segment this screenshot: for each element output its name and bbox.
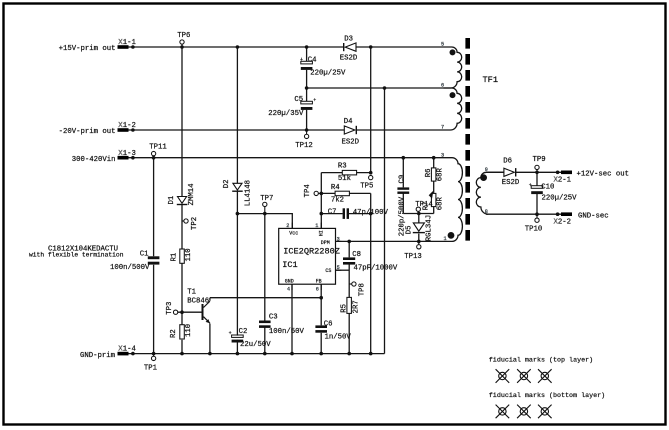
test point TP11 (149, 144, 167, 158)
svg-text:C2: C2 (239, 328, 248, 336)
svg-text:X2-2: X2-2 (554, 219, 572, 227)
wire C8/R5 vertical (348, 241, 350, 353)
svg-text:+: + (313, 98, 316, 104)
capacitor C9 (397, 175, 409, 237)
svg-text:TP7: TP7 (260, 195, 273, 203)
wire C7 row (321, 213, 370, 215)
svg-text:68R: 68R (436, 197, 444, 211)
svg-text:fiducial marks (top layer): fiducial marks (top layer) (489, 356, 593, 364)
wire GND rail (129, 353, 385, 355)
transformer TF1 winding 5-6 (444, 47, 462, 88)
transformer phase dot winding6 (450, 92, 456, 98)
wire C4/C5 vertical (306, 47, 308, 130)
svg-text:7k2: 7k2 (331, 197, 344, 205)
wire Vcc feed row (237, 214, 292, 229)
test point TP5 (360, 175, 373, 190)
wire aux-raw to TP5 vertical (370, 47, 372, 173)
svg-text:D4: D4 (344, 118, 353, 126)
diode D5 RGL34J (405, 215, 433, 241)
svg-text:3: 3 (337, 237, 340, 243)
svg-text:X1-4: X1-4 (118, 346, 136, 354)
transformer phase dot winding1 (448, 232, 455, 239)
diode D4 (342, 118, 360, 147)
test point TP2 (182, 217, 199, 230)
svg-text:+: + (229, 330, 232, 336)
wire D1/R1/R2 vertical (181, 47, 183, 354)
junction dot C7 left (320, 212, 324, 216)
transformer TF1 winding 6-7 (444, 88, 462, 130)
svg-text:TP6: TP6 (177, 32, 190, 40)
svg-text:IC1: IC1 (282, 260, 297, 270)
svg-text:C1: C1 (140, 251, 149, 259)
svg-text:68R: 68R (436, 167, 444, 181)
svg-text:TP8: TP8 (358, 283, 366, 296)
svg-text:C6: C6 (324, 320, 333, 328)
resistor R6 (425, 167, 445, 181)
diode D6 (502, 158, 520, 188)
svg-text:C7: C7 (328, 209, 337, 217)
wire emitter vertical (209, 324, 211, 354)
svg-text:5: 5 (337, 265, 340, 271)
svg-text:6: 6 (316, 286, 319, 292)
wire D5 vertical (418, 214, 420, 242)
test point TP13 (404, 241, 422, 260)
wire -20V row (129, 129, 444, 131)
svg-text:GND: GND (285, 279, 294, 285)
svg-text:8: 8 (485, 209, 488, 215)
wire D2/C2 vertical (236, 47, 238, 354)
svg-text:TF1: TF1 (483, 75, 498, 85)
test point TP9 (533, 156, 546, 172)
test point TP7 (260, 195, 273, 214)
wire clamp row (403, 213, 433, 215)
transistor T1 BC846 (187, 289, 210, 324)
svg-text:C3: C3 (269, 314, 278, 322)
test point TP12 (295, 130, 313, 150)
junction dot pin6 row (383, 86, 387, 90)
svg-text:R5: R5 (340, 304, 348, 313)
svg-text:110: 110 (185, 324, 193, 337)
svg-text:220µ/25V: 220µ/25V (310, 70, 346, 78)
resistor R1 (170, 248, 193, 263)
resistor R4 (331, 184, 350, 205)
wire pin6 row (307, 87, 444, 89)
svg-text:6: 6 (441, 83, 444, 89)
transformer TF1 core (465, 38, 470, 246)
svg-text:TP3: TP3 (166, 302, 174, 315)
connector X1-2 (118, 122, 136, 132)
wire pin1/DPM row (336, 240, 444, 242)
wire base row (178, 311, 202, 313)
svg-text:FB: FB (316, 279, 322, 285)
svg-text:+12V-sec out: +12V-sec out (577, 170, 630, 178)
svg-text:5: 5 (441, 42, 444, 48)
junction dots +15V row (180, 45, 372, 49)
svg-text:R4: R4 (331, 184, 340, 192)
svg-text:LL4148: LL4148 (245, 180, 253, 206)
svg-text:T1: T1 (187, 289, 196, 297)
wire collector vertical (209, 298, 211, 301)
svg-text:100n/500V: 100n/500V (110, 264, 150, 272)
svg-text:-20V-prim out: -20V-prim out (59, 128, 116, 136)
junction dot base row (180, 310, 184, 314)
svg-text:51k: 51k (338, 175, 352, 183)
svg-text:R6: R6 (425, 169, 433, 178)
junction dots GND rail (152, 352, 373, 356)
capacitor C10 (529, 183, 577, 203)
junction dot clamp row (417, 212, 421, 216)
wire C1 vertical (153, 158, 155, 354)
junction dot -20V row C5 (305, 128, 309, 132)
svg-text:C4: C4 (308, 56, 317, 64)
svg-text:220µ/35V: 220µ/35V (268, 110, 304, 118)
diode D3 (340, 36, 358, 63)
wire C10 vertical (536, 172, 538, 214)
svg-text:ZMM14: ZMM14 (188, 183, 196, 206)
connector X2-1 (554, 171, 573, 185)
note C1 part number (29, 245, 124, 258)
svg-text:fiducial marks (bottom layer): fiducial marks (bottom layer) (489, 392, 605, 400)
wire R4 row (321, 192, 370, 194)
svg-text:C8: C8 (352, 251, 361, 259)
wire R4/C7 to GND vertical (370, 193, 372, 353)
diode D2 LL4148 (223, 180, 253, 207)
svg-text:TP11: TP11 (149, 144, 167, 152)
transformer phase dot winding5 (450, 49, 456, 55)
test point TP6 (177, 32, 190, 47)
svg-text:R1: R1 (170, 252, 178, 261)
svg-text:C5: C5 (294, 96, 303, 104)
fiducial marks bottom row (496, 405, 552, 419)
junction dot C4/C5 mid (305, 86, 309, 90)
diode D1 ZMM14 (168, 183, 196, 206)
connector X1-3 (118, 150, 136, 160)
wire C3/TP7 vertical (264, 214, 266, 354)
test point TP10 (525, 214, 543, 233)
svg-text:C9: C9 (399, 175, 407, 184)
svg-text:with flexible termination: with flexible termination (29, 252, 124, 259)
svg-text:BC846: BC846 (187, 298, 209, 306)
svg-text:TP10: TP10 (525, 225, 543, 233)
junction dot FB row (319, 296, 323, 300)
test point TP1 (144, 354, 158, 373)
svg-text:110: 110 (185, 248, 193, 261)
svg-text:X1-3: X1-3 (118, 150, 136, 158)
wire 300-420Vin row (129, 157, 444, 159)
test point TP8 (349, 282, 366, 296)
svg-text:ES2D: ES2D (502, 179, 520, 187)
capacitor C3 (259, 314, 305, 337)
wire +15V row (129, 46, 444, 48)
svg-text:TP12: TP12 (295, 142, 313, 150)
svg-text:D1: D1 (168, 195, 176, 204)
svg-text:9: 9 (485, 167, 488, 173)
svg-text:47pF/1000V: 47pF/1000V (354, 265, 398, 273)
fiducial marks top row (496, 369, 552, 383)
capacitor C2 (229, 328, 272, 349)
svg-text:GND-sec: GND-sec (578, 212, 609, 220)
svg-text:ES2D: ES2D (340, 55, 358, 63)
wire R6/R7 vertical (433, 158, 435, 214)
connector X2-2 (554, 212, 573, 226)
junction dot R3/TP5 (369, 171, 373, 175)
svg-text:+: + (529, 183, 532, 189)
svg-text:1n/50V: 1n/50V (325, 334, 352, 342)
connector X1-4 (118, 346, 137, 356)
transformer TF1 secondary winding 9-8 (476, 172, 504, 214)
capacitor C8 (343, 251, 398, 272)
wire C9 vertical (402, 158, 404, 214)
svg-text:100n/50V: 100n/50V (269, 328, 305, 336)
svg-text:D2: D2 (223, 180, 231, 189)
svg-text:TP14: TP14 (415, 201, 433, 209)
wire HI vertical (320, 173, 322, 229)
resistor R5 (340, 297, 360, 313)
wire pin8 row secondary (486, 213, 561, 215)
junction dot TP4/R4 (320, 192, 324, 196)
svg-text:7: 7 (441, 125, 444, 131)
wire CS stub (336, 269, 350, 271)
wire collector row (210, 297, 321, 299)
test point TP14 (415, 191, 433, 214)
wire GND pin vertical (291, 284, 293, 353)
svg-text:2: 2 (286, 223, 289, 229)
wire FB/C6 vertical (320, 284, 322, 353)
svg-text:Vcc: Vcc (289, 231, 298, 237)
junction dots Vin row (152, 156, 436, 160)
svg-text:R3: R3 (338, 163, 347, 171)
svg-text:RGL34J: RGL34J (425, 215, 433, 241)
svg-text:2R7: 2R7 (353, 300, 361, 313)
op-amp/IC U1 box IC1 ICE2QR2280Z (279, 223, 342, 293)
svg-text:4: 4 (287, 286, 290, 292)
svg-text:DPM: DPM (321, 240, 330, 246)
svg-text:TP9: TP9 (533, 156, 546, 164)
svg-text:X2-1: X2-1 (554, 177, 572, 185)
test point TP3 (166, 302, 178, 315)
capacitor C1 (110, 251, 159, 273)
transformer TF1 winding 3-1 (444, 158, 463, 242)
svg-text:220µ/25V: 220µ/25V (542, 195, 578, 203)
transformer phase dot winding9 (480, 174, 487, 181)
capacitor C7 (328, 208, 389, 219)
svg-text:ICE2QR2280Z: ICE2QR2280Z (283, 247, 340, 257)
connector X1-1 (118, 39, 137, 49)
svg-text:TP2: TP2 (191, 217, 199, 230)
svg-text:3: 3 (441, 152, 444, 158)
svg-text:+: + (300, 57, 303, 63)
svg-text:X1-1: X1-1 (118, 39, 136, 47)
svg-text:D3: D3 (344, 36, 353, 44)
resistor R3 (338, 163, 357, 184)
resistor R2 (170, 324, 193, 339)
junction dots pin1 row (347, 240, 420, 244)
svg-text:+15V-prim out: +15V-prim out (59, 45, 116, 53)
wire R3 row (321, 172, 370, 174)
wire pin6 to GND vertical (384, 88, 386, 354)
capacitor C4 (300, 56, 346, 77)
svg-text:TP4: TP4 (304, 184, 312, 198)
svg-text:X1-2: X1-2 (118, 122, 136, 130)
svg-text:CS: CS (325, 268, 331, 274)
svg-text:1: 1 (444, 236, 447, 242)
svg-text:300-420Vin: 300-420Vin (72, 156, 116, 164)
svg-text:HI: HI (318, 230, 324, 236)
junction dot C7 right (369, 212, 373, 216)
svg-text:TP1: TP1 (144, 364, 158, 372)
svg-text:TP5: TP5 (360, 183, 373, 191)
svg-text:1: 1 (315, 223, 318, 229)
junction dots Vcc row (236, 212, 267, 216)
capacitor C6 (315, 320, 351, 341)
junction dots secondary (535, 171, 539, 217)
capacitor C5 (268, 96, 316, 118)
wire D6 row secondary (486, 171, 561, 173)
svg-text:C10: C10 (541, 183, 554, 191)
test point TP4 (304, 184, 322, 198)
svg-text:220p/500V: 220p/500V (399, 196, 407, 236)
resistor R7 (423, 193, 445, 210)
svg-text:R2: R2 (170, 329, 178, 338)
svg-text:TP13: TP13 (404, 253, 422, 261)
svg-text:D6: D6 (503, 158, 512, 166)
svg-text:GND-prim: GND-prim (80, 352, 115, 360)
svg-text:22u/50V: 22u/50V (240, 341, 271, 349)
svg-text:ES2D: ES2D (342, 139, 360, 147)
